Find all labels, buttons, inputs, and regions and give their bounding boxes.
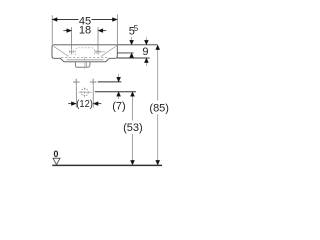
dim 9 upper arrow tail [145,37,147,40]
dim 7 upper arrowhead [117,77,121,82]
drain outlet crosshair horizontal [79,91,92,93]
dim 45 line left segment [52,19,78,21]
dim 18 right arrowhead [98,29,103,33]
dim 7 lower tail [118,97,120,99]
floor line [52,164,162,166]
drain outlet circle [81,89,88,96]
dim 45 right arrowhead [112,18,117,22]
svg-text:(85): (85) [149,102,169,114]
dim 45 left extension line [51,15,53,44]
dim 9 lower tail [145,63,147,66]
drain cup [76,62,90,67]
dim 7 upper arrow tail [118,74,120,78]
dim 45 line right segment [92,19,118,21]
dim 18 left tail [63,30,67,32]
svg-text:0: 0 [53,149,58,159]
dim 45 left arrowhead [52,18,57,22]
svg-text:(53): (53) [123,122,143,134]
tap hole circle right [96,50,101,55]
dim 53 lower arrowhead [131,160,135,165]
rim bottom hidden dashed line [61,57,109,59]
basin centerline [84,57,86,69]
dim 53 upper arrowhead [131,92,135,97]
basin inner right diagonal [101,46,116,56]
dim 45 right extension line [116,15,118,45]
dim 85 upper arrowhead [156,45,160,50]
dim 12 right tail [98,103,102,105]
5.5 reference line [117,52,133,54]
dim 12 right arrowhead [93,102,98,106]
dim 5.5 upper arrowhead [130,40,134,45]
basin inner bowl dashed outline [75,48,94,56]
svg-text:5: 5 [134,24,139,33]
washbasin outer rim [52,45,117,62]
dim 53 line upper [132,96,134,120]
svg-text:9: 9 [142,46,148,58]
dim 12 left tail [68,103,72,105]
dim 85 lower arrowhead [156,160,160,165]
basin inner left diagonal [54,46,69,56]
svg-text:(12): (12) [76,98,93,110]
dim 12 left arrowhead [71,102,76,106]
dim 18 left extension line [71,27,73,49]
fixing hole cross left [73,79,80,86]
fixing hole level line [98,81,122,83]
dim 7 lower arrowhead [117,92,121,97]
hidden edge line y=51.8 right [95,51,105,53]
dim 85 line upper [157,50,159,101]
floor level datum triangle [53,158,60,164]
tap hole circle left [69,50,74,55]
dim 12 left extension line [75,86,77,108]
bowl underside line [67,59,104,61]
dim 53 line lower [132,134,134,161]
svg-text:(7): (7) [112,101,125,113]
dim 18 left arrowhead [67,29,72,33]
dim 12 right extension line [92,86,94,108]
dim 5.5 upper arrow tail [131,37,133,40]
dim 9 lower arrowhead [144,58,148,63]
drain cup inner line [85,62,87,67]
tap hole cross left [69,49,74,54]
top level line to (85) [117,44,157,46]
9 reference line [117,57,149,59]
tap hole cross right [95,49,100,54]
dim 9 upper arrowhead [144,40,148,45]
dim 18 right extension line [97,27,99,49]
dim 18 right tail [103,30,107,32]
dim 5.5 lower arrowhead [130,53,134,58]
dim 85 line lower [157,114,159,160]
drain outlet crosshair vertical [84,88,86,98]
svg-text:18: 18 [79,25,91,37]
drain level line [95,91,136,93]
fixing hole cross right [90,79,97,86]
